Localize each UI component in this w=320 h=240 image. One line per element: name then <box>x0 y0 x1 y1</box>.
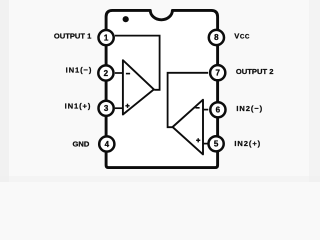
op-amp A1 (left, points right) <box>123 60 154 114</box>
A1 plus symbol <box>125 104 129 108</box>
wire pin6 to A2 inverting input <box>203 109 209 111</box>
svg-text:IN1(−): IN1(−) <box>66 66 93 75</box>
pin 4 circle <box>99 136 114 151</box>
svg-text:6: 6 <box>216 106 221 115</box>
pin 8 circle <box>209 30 224 45</box>
svg-text:IN2(−): IN2(−) <box>236 104 263 113</box>
svg-text:2: 2 <box>104 69 109 78</box>
svg-text:OUTPUT 1: OUTPUT 1 <box>54 31 92 40</box>
pin 2 circle <box>98 65 113 80</box>
svg-text:5: 5 <box>214 140 219 149</box>
wire pin3 to A1 non-inverting input <box>115 107 123 109</box>
pin 1 circle <box>99 30 114 45</box>
svg-text:3: 3 <box>104 104 109 113</box>
svg-text:4: 4 <box>105 140 110 149</box>
wire pin7 to op-amp A2 output <box>168 73 209 127</box>
svg-text:7: 7 <box>215 69 220 78</box>
svg-text:8: 8 <box>214 33 219 42</box>
wire pin5 to A2 non-inverting input <box>203 143 208 145</box>
wire pin1 to op-amp A1 output <box>115 36 160 90</box>
svg-text:1: 1 <box>104 33 109 42</box>
pin 3 circle <box>99 101 114 116</box>
pin 5 circle <box>209 136 224 151</box>
pin-1 indicator dot <box>123 16 129 22</box>
svg-text:OUTPUT 2: OUTPUT 2 <box>236 67 274 76</box>
pin 6 circle <box>210 102 225 117</box>
op-amp A2 (right, points left) <box>173 100 203 155</box>
IC body U1 (8-pin DIP outline, top view) <box>106 10 218 167</box>
A1 minus symbol <box>126 73 130 75</box>
wire pin2 to A1 inverting input <box>115 72 123 74</box>
svg-text:VCC: VCC <box>234 32 250 41</box>
pin 7 circle <box>210 65 225 80</box>
svg-text:GND: GND <box>73 140 90 149</box>
svg-text:IN2(+): IN2(+) <box>234 139 261 148</box>
A2 minus symbol <box>195 107 199 109</box>
svg-text:IN1(+): IN1(+) <box>65 102 92 111</box>
A2 plus symbol <box>196 138 200 142</box>
